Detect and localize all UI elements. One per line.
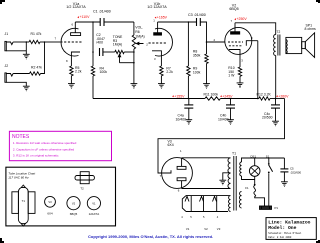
heater V1 — [185, 196, 189, 201]
tube V1a envelope — [61, 28, 78, 56]
svg-text:350k: 350k — [193, 53, 201, 57]
ground V2 cathode — [237, 82, 244, 84]
svg-text:C3 .01/400: C3 .01/400 — [188, 13, 206, 17]
corner mark top-right — [316, 0, 320, 3]
chart V1 socket — [87, 197, 100, 210]
svg-text:1 W: 1 W — [228, 74, 235, 78]
tube chart box — [6, 167, 116, 226]
svg-text:T2: T2 — [80, 186, 84, 190]
ground J1 — [23, 53, 30, 55]
T2 secondary winding — [286, 40, 288, 54]
V2 screen link to pin 9 — [246, 41, 257, 46]
wire V1b plate node — [158, 21, 197, 23]
wire C2 to tone — [103, 51, 115, 53]
svg-text:1/2 12AX7A: 1/2 12AX7A — [147, 5, 167, 9]
svg-text:6X4: 6X4 — [47, 211, 53, 215]
resistor R2 — [30, 72, 41, 75]
resistor R9 plate load V1b — [187, 22, 189, 66]
svg-text:+250V: +250V — [237, 17, 248, 21]
wire R8 to ground — [206, 64, 208, 84]
V1b cathode — [152, 51, 161, 66]
V1a plate — [71, 33, 81, 36]
jack J2 — [5, 73, 6, 82]
svg-text:C1 .01/400: C1 .01/400 — [93, 10, 111, 14]
svg-text:Copyright 1999-2000, Miles O'N: Copyright 1999-2000, Miles O'Neal, Austi… — [88, 234, 213, 239]
notes box — [9, 131, 111, 160]
heater divider V3-T1 — [216, 196, 218, 212]
voltage label +245V — [220, 95, 222, 97]
voltage label +260V — [276, 95, 278, 97]
svg-text:8 ohms: 8 ohms — [305, 27, 317, 31]
V3 cathode — [162, 170, 171, 173]
svg-text:DS1: DS1 — [251, 154, 257, 158]
T1 center tap to ground — [223, 173, 231, 180]
svg-text:1. Resistors 1/2 watt unless o: 1. Resistors 1/2 watt unless otherwise s… — [13, 141, 77, 145]
tube V3 envelope — [162, 158, 193, 189]
svg-text:/400: /400 — [96, 41, 103, 45]
tube V2 envelope — [225, 27, 252, 54]
wire V2 grid tap — [207, 41, 226, 43]
wire lamp loop — [242, 176, 255, 180]
capacitor C1 — [99, 18, 101, 26]
svg-text:6BQ5: 6BQ5 — [229, 7, 238, 11]
capacitor C5 — [283, 158, 285, 169]
ground C5 — [281, 181, 288, 183]
svg-text:.022/600: .022/600 — [290, 170, 301, 174]
svg-text:+245V: +245V — [222, 94, 233, 98]
capacitor C4a — [188, 99, 190, 105]
svg-text:6X4: 6X4 — [168, 143, 174, 147]
corner mark top-left — [0, 0, 5, 4]
ground J2 — [23, 85, 30, 87]
wire plate node down — [92, 22, 94, 52]
wire C2 node down to R4 — [92, 52, 94, 66]
wire V1a plate node — [75, 21, 100, 23]
plug P1 — [260, 206, 272, 209]
wire J2 tip to R2 — [13, 73, 29, 75]
wire C1 down to vol top — [133, 22, 135, 35]
V1b grid — [149, 42, 168, 44]
svg-text:V3: V3 — [48, 200, 52, 204]
svg-text:V2: V2 — [204, 227, 208, 231]
T2 primary winding — [274, 35, 276, 56]
svg-text:R1 47k: R1 47k — [31, 32, 42, 36]
fuse F1 — [254, 184, 256, 186]
svg-text:+110V: +110V — [80, 15, 91, 19]
svg-text:100k: 100k — [100, 70, 108, 74]
R6 wiper arrow — [136, 42, 143, 44]
heater V2 — [200, 196, 204, 201]
svg-text:R12 3.2K: R12 3.2K — [257, 92, 272, 96]
wire R10 to ground — [239, 76, 241, 83]
speaker SP1 — [286, 37, 302, 53]
svg-text:P1: P1 — [275, 206, 279, 210]
svg-text:J1: J1 — [5, 32, 9, 36]
svg-text:2. Capacitors in uF unless oth: 2. Capacitors in uF unless otherwise spe… — [13, 147, 75, 151]
ground V1a cathode — [68, 83, 75, 85]
svg-text:T2: T2 — [277, 30, 281, 34]
voltage label +165V — [155, 17, 157, 19]
svg-text:V1: V1 — [186, 227, 190, 231]
V1a grid — [60, 41, 82, 43]
wire V3 plate to T1 HV top — [182, 157, 231, 159]
svg-text:F1: F1 — [245, 186, 249, 190]
heater bus — [186, 195, 228, 197]
wire R3 right to vol bottom — [124, 51, 134, 53]
svg-text:12AX7A: 12AX7A — [89, 212, 100, 216]
T1 primary lower — [239, 192, 241, 209]
resistor R12 — [259, 97, 270, 100]
resistor R5 cathode V1a — [70, 66, 73, 76]
V2 cathode — [229, 50, 240, 68]
title box — [266, 218, 316, 240]
wire T1 primary top — [242, 158, 285, 162]
svg-text:100k: 100k — [193, 70, 201, 74]
wire R7 to ground — [160, 76, 162, 84]
wire V2 plate to T2 — [235, 23, 276, 35]
voltage label +155V — [172, 95, 174, 97]
wire bus R12 to corner — [270, 98, 285, 100]
wire R4 to bus — [92, 76, 94, 99]
wire R3 wiper to ground node — [120, 62, 134, 64]
svg-text:6BQ5: 6BQ5 — [70, 212, 78, 216]
V2 grid1 — [228, 41, 243, 43]
svg-text:1/2 12AX7A: 1/2 12AX7A — [66, 5, 86, 9]
svg-text:V3: V3 — [217, 227, 221, 231]
T1 heater winding — [229, 196, 231, 212]
svg-text:T1: T1 — [22, 199, 26, 203]
capacitor C4c — [275, 99, 277, 105]
resistor R10 cathode V2 — [238, 67, 241, 76]
corner mark bottom-left — [0, 238, 4, 243]
svg-text:T1: T1 — [232, 151, 236, 155]
ground R8 — [203, 83, 210, 85]
wire T2 primary bottom to +260V — [275, 56, 277, 99]
voltage label +110V — [77, 16, 79, 18]
svg-text:10/400: 10/400 — [218, 117, 229, 121]
svg-text:S1: S1 — [266, 154, 270, 158]
ground V1b cathode — [158, 83, 165, 85]
V1b plate — [154, 33, 162, 36]
wire vol bottom to ground — [133, 49, 135, 84]
svg-text:R2 47k: R2 47k — [31, 66, 42, 70]
svg-text:Model: One: Model: One — [268, 225, 296, 231]
jack J1 — [5, 41, 6, 50]
svg-text:Line: Kalamazoo: Line: Kalamazoo — [268, 220, 310, 226]
wire fuse to plug — [255, 196, 265, 206]
potentiometer R3 tone — [115, 50, 124, 53]
ground C4b — [227, 119, 234, 121]
ground T1 center tap — [219, 179, 226, 181]
V2 grid2 screen — [229, 45, 243, 47]
wire R1 to grid junction — [40, 41, 45, 43]
wire J1 junction down — [25, 42, 27, 54]
wire bus R11 to R12 — [220, 98, 258, 100]
svg-text:2.2k: 2.2k — [75, 70, 82, 74]
heater divider V1-V2 — [190, 196, 192, 212]
wire R5 to ground — [70, 76, 72, 84]
wire J1 sleeve — [6, 50, 26, 52]
resistor R4 — [91, 66, 94, 76]
T1 core — [233, 156, 235, 211]
voltage label +250V — [234, 18, 236, 20]
T1 HV secondary — [228, 158, 231, 189]
resistor R7 cathode V1b — [160, 66, 163, 76]
svg-text:20/500: 20/500 — [262, 116, 273, 120]
wire C1 to volume — [104, 21, 134, 23]
switch S1 — [268, 163, 270, 165]
svg-text:117 VAC 60 Hz: 117 VAC 60 Hz — [8, 175, 29, 179]
chart T2 symbol — [80, 172, 89, 184]
wire J1 tip to junction — [13, 41, 29, 43]
capacitor C4b — [230, 99, 232, 105]
resistor R1 — [29, 40, 40, 43]
potentiometer R6 volume — [132, 35, 135, 49]
svg-text:2.2k: 2.2k — [166, 70, 173, 74]
svg-text:R11 100k: R11 100k — [204, 92, 219, 96]
wire J2 sleeve to ground — [6, 82, 26, 86]
chart T1 symbol — [12, 192, 19, 214]
wire C3 to grid leak — [200, 22, 206, 54]
svg-text:10/400: 10/400 — [176, 117, 187, 121]
svg-text:3. R12 is 1K on original schem: 3. R12 is 1K on original schematic — [13, 154, 59, 158]
svg-text:V2: V2 — [72, 201, 76, 205]
svg-text:1M(A): 1M(A) — [135, 34, 144, 38]
capacitor C2 — [99, 48, 101, 56]
wire V3 plate to T1 HV bottom — [182, 188, 231, 190]
wire B+ bus — [93, 98, 205, 100]
svg-text:NOTES: NOTES — [12, 134, 30, 140]
svg-text:+260V: +260V — [278, 94, 289, 98]
capacitor C3 — [196, 18, 198, 26]
wire +260V return loop — [158, 99, 285, 174]
ground volume/tone — [131, 83, 138, 85]
T2 core — [277, 35, 279, 56]
V3 plate bottom — [177, 178, 186, 181]
ground C4c — [272, 120, 279, 122]
wire R2 up to junction — [41, 42, 45, 74]
V1a cathode — [71, 52, 80, 66]
svg-text:1M(A): 1M(A) — [113, 43, 122, 47]
V2 plate — [231, 32, 240, 35]
resistor R11 — [205, 97, 221, 100]
svg-text:Schematic: Miles O'Neal: Schematic: Miles O'Neal — [268, 232, 302, 235]
svg-text:V1: V1 — [92, 201, 96, 205]
resistor R8 grid leak — [205, 54, 208, 64]
lamp DS1 — [254, 158, 256, 166]
corner mark bottom-right — [316, 240, 320, 243]
V3 plate top — [177, 166, 186, 169]
heater divider V2-V3 — [203, 196, 205, 212]
chart V2 socket — [67, 197, 80, 210]
ground C4a — [185, 119, 192, 121]
T1 primary upper — [240, 162, 242, 176]
svg-text:+165V: +165V — [157, 16, 168, 20]
svg-text:J2: J2 — [5, 64, 9, 68]
wire screen to +245V bus — [257, 41, 259, 99]
R3 wiper arrow — [118, 54, 120, 63]
svg-text:Date: 8 Feb 2000: Date: 8 Feb 2000 — [268, 236, 292, 239]
svg-text:+155V: +155V — [174, 94, 185, 98]
heater V3 — [213, 196, 217, 201]
wire S1 down to plug — [268, 173, 270, 206]
chart V3 socket — [45, 196, 56, 207]
wire grid junction to V1a — [45, 41, 61, 43]
tube V1b envelope — [155, 28, 172, 56]
